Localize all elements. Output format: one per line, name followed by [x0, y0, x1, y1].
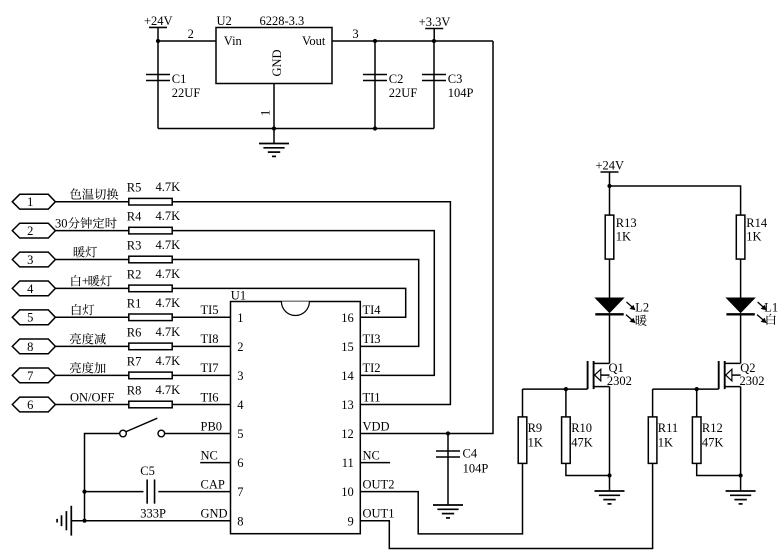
svg-text:1: 1: [237, 311, 243, 325]
LED L2: [596, 298, 624, 313]
wire port 8 to R6: [56, 345, 129, 347]
svg-text:22UF: 22UF: [172, 86, 201, 100]
svg-text:104P: 104P: [448, 86, 474, 100]
svg-text:30: 30: [55, 216, 68, 230]
svg-text:C5: C5: [140, 464, 155, 478]
svg-text:4.7K: 4.7K: [156, 325, 181, 339]
svg-text:+3.3V: +3.3V: [419, 15, 451, 29]
node R12 gate: [695, 387, 699, 391]
svg-text:8: 8: [237, 514, 243, 528]
svg-text:TI1: TI1: [363, 390, 381, 404]
port 2: [12, 223, 55, 238]
node C4 tap: [446, 431, 450, 435]
svg-text:4.7K: 4.7K: [156, 296, 181, 310]
svg-text:3: 3: [237, 369, 243, 383]
svg-text:8: 8: [27, 340, 33, 354]
svg-text:2: 2: [188, 27, 194, 41]
wire ground rail top-left: [158, 128, 434, 130]
svg-text:R6: R6: [127, 325, 142, 339]
ground left (rotated): [70, 506, 72, 536]
resistor R3: [129, 256, 172, 263]
node +24V rail: [607, 184, 611, 188]
pin 6 NC stub: [200, 462, 230, 464]
net label 亮度加: [70, 362, 81, 373]
svg-text:NC: NC: [363, 448, 380, 462]
wire C5 left: [85, 491, 144, 493]
svg-text:14: 14: [341, 369, 354, 383]
wire R3 to pin 14 riser: [172, 260, 419, 347]
net label 色温切换: [70, 188, 82, 199]
wire R8 to pin 4: [172, 404, 230, 406]
svg-text:C4: C4: [463, 447, 478, 461]
wire port 1 to R5: [56, 201, 129, 203]
resistor R5: [129, 198, 172, 205]
svg-text:1K: 1K: [746, 229, 761, 243]
svg-text:GND: GND: [201, 507, 228, 521]
svg-text:104P: 104P: [463, 462, 489, 476]
ground under Q2: [726, 490, 756, 492]
svg-text:4: 4: [27, 282, 34, 296]
svg-text:1: 1: [27, 195, 33, 209]
svg-text:1K: 1K: [528, 435, 543, 449]
svg-text:+24V: +24V: [596, 159, 625, 173]
svg-text:4: 4: [237, 398, 244, 412]
svg-text:6: 6: [237, 456, 243, 470]
svg-text:7: 7: [27, 369, 33, 383]
node R10 gate: [564, 387, 568, 391]
node input +24V: [156, 39, 160, 43]
node C3 top: [432, 39, 436, 43]
ground under Q1: [595, 490, 625, 492]
node C5 left: [82, 490, 86, 494]
ground under U2: [273, 129, 275, 144]
node C2 top: [373, 39, 377, 43]
svg-text:47K: 47K: [702, 435, 724, 449]
svg-text:L1: L1: [764, 301, 778, 315]
port 8: [12, 339, 55, 354]
power +24V: [149, 26, 167, 28]
resistor R6: [129, 343, 172, 350]
port 7: [12, 368, 55, 383]
svg-text:R10: R10: [571, 421, 592, 435]
svg-text:10: 10: [341, 485, 354, 499]
resistor R7: [129, 372, 172, 379]
svg-text:7: 7: [237, 485, 243, 499]
svg-text:4.7K: 4.7K: [156, 354, 181, 368]
svg-text:C3: C3: [448, 72, 463, 86]
svg-text:1K: 1K: [616, 229, 631, 243]
pin 11 NC stub: [360, 462, 390, 464]
svg-text:6228-3.3: 6228-3.3: [260, 14, 305, 28]
port 1: [12, 194, 55, 209]
svg-text:R9: R9: [528, 421, 543, 435]
svg-text:R14: R14: [746, 216, 768, 230]
resistor R9: [522, 389, 524, 417]
wire PB0 to switch: [165, 433, 231, 435]
svg-text:9: 9: [348, 514, 354, 528]
svg-text:TI6: TI6: [201, 390, 219, 404]
svg-text:1K: 1K: [658, 435, 673, 449]
wire OUT1 to R11: [360, 463, 652, 548]
resistor R10: [565, 389, 567, 417]
IC U1 body: [231, 302, 361, 534]
voltage regulator U2: [216, 28, 332, 84]
svg-text:2302: 2302: [607, 374, 632, 388]
svg-text:TI3: TI3: [363, 332, 381, 346]
svg-text:R2: R2: [127, 267, 142, 281]
svg-text:C1: C1: [172, 72, 187, 86]
wire R7 to pin 3: [172, 374, 230, 376]
wire port 3 to R3: [56, 259, 129, 261]
svg-text:4.7K: 4.7K: [156, 383, 181, 397]
wire R14 to LED L1: [740, 259, 742, 298]
svg-text:R7: R7: [127, 354, 142, 368]
capacitor C5: [146, 480, 148, 504]
wire R2 to pin 13 riser: [172, 288, 406, 317]
svg-text:R1: R1: [127, 296, 142, 310]
svg-text:Q2: Q2: [740, 361, 755, 375]
transistor Q2: [718, 361, 720, 389]
power +24V right: [601, 171, 619, 173]
svg-text:12: 12: [341, 427, 354, 441]
net label 亮度减: [70, 333, 81, 344]
wire C5 to CAP pin: [158, 491, 230, 493]
svg-text:CAP: CAP: [201, 477, 225, 491]
resistor R11: [652, 389, 654, 417]
svg-text:Q1: Q1: [609, 361, 624, 375]
node U2 gnd: [272, 126, 276, 130]
wire port 2 to R4: [56, 230, 129, 232]
port 4: [12, 281, 55, 296]
wire R5 to pin 16 riser: [172, 202, 450, 405]
net label 暖灯: [74, 246, 85, 257]
port 3: [12, 252, 55, 267]
svg-text:22UF: 22UF: [389, 86, 418, 100]
wire Q1 source to ground: [609, 387, 611, 491]
capacitor C4: [447, 434, 449, 506]
wire Vout to +3.3V net: [332, 40, 493, 42]
svg-text:TI7: TI7: [201, 361, 219, 375]
svg-text:11: 11: [342, 456, 354, 470]
svg-text:VDD: VDD: [363, 419, 390, 433]
wire Q1 gate: [523, 388, 588, 390]
wire port 4 to R2: [56, 287, 129, 289]
wire R1 to pin 1: [172, 316, 230, 318]
svg-text:333P: 333P: [140, 506, 166, 520]
svg-text:OUT1: OUT1: [363, 507, 395, 521]
wire U2 GND pin: [273, 84, 275, 129]
svg-text:R3: R3: [127, 239, 142, 253]
node Q2 source: [739, 473, 743, 477]
resistor R4: [129, 227, 172, 234]
switch S1: [158, 430, 165, 437]
node GND junction: [82, 519, 86, 523]
svg-text:4.7K: 4.7K: [156, 267, 181, 281]
svg-text:16: 16: [341, 311, 354, 325]
wire +3.3V to VDD: [360, 41, 493, 434]
svg-text:NC: NC: [201, 448, 218, 462]
wire R12 to source: [697, 463, 741, 475]
wire Q2 source to ground: [740, 387, 742, 491]
svg-text:2: 2: [27, 224, 33, 238]
capacitor C2: [374, 41, 376, 129]
svg-text:R8: R8: [127, 384, 142, 398]
wire rail to R13: [609, 186, 611, 215]
transistor Q1: [587, 361, 589, 389]
wire R13 to LED L2: [609, 259, 611, 298]
svg-text:Vout: Vout: [302, 34, 326, 48]
svg-text:Vin: Vin: [224, 34, 243, 48]
wire Q2 gate: [653, 388, 719, 390]
svg-text:4.7K: 4.7K: [156, 180, 181, 194]
ground under C4: [433, 504, 463, 506]
wire C1 branch: [157, 41, 159, 129]
capacitor C1: [146, 74, 170, 76]
wire OUT2 to R9: [360, 463, 522, 534]
svg-text:2302: 2302: [740, 374, 765, 388]
wire L1 to Q2 drain: [740, 316, 742, 364]
svg-text:3: 3: [352, 27, 358, 41]
svg-text:OUT2: OUT2: [363, 477, 395, 491]
node C2 bottom: [373, 126, 377, 130]
capacitor C3: [433, 41, 435, 129]
svg-text:R13: R13: [616, 216, 637, 230]
power +3.3V: [425, 28, 443, 30]
svg-text:1: 1: [259, 110, 273, 116]
svg-text:5: 5: [237, 427, 243, 441]
svg-text:4.7K: 4.7K: [156, 238, 181, 252]
svg-text:C2: C2: [389, 72, 404, 86]
svg-text:+24V: +24V: [144, 14, 173, 28]
resistor R12: [696, 389, 698, 417]
wire port 7 to R7: [56, 374, 129, 376]
svg-text:U1: U1: [231, 288, 246, 302]
svg-text:U2: U2: [217, 14, 232, 28]
resistor R2: [129, 285, 172, 292]
port 5: [12, 310, 55, 325]
svg-text:GND: GND: [270, 49, 284, 76]
svg-text:4.7K: 4.7K: [156, 209, 181, 223]
wire L2 to Q1 drain: [609, 316, 611, 364]
svg-text:5: 5: [27, 311, 33, 325]
svg-text:R12: R12: [702, 421, 723, 435]
svg-text:PB0: PB0: [201, 419, 223, 433]
svg-text:R11: R11: [658, 421, 678, 435]
wire R6 to pin 2: [172, 345, 230, 347]
wire +24V to Vin: [158, 40, 231, 42]
wire R10 to source: [566, 463, 610, 475]
svg-text:47K: 47K: [571, 435, 593, 449]
svg-text:R5: R5: [127, 181, 142, 195]
svg-text:+: +: [82, 274, 89, 288]
svg-text:6: 6: [27, 398, 33, 412]
svg-text:TI5: TI5: [201, 303, 219, 317]
resistor R13: [605, 215, 614, 259]
svg-text:R4: R4: [127, 210, 142, 224]
wire GND pin to ground: [71, 520, 230, 522]
svg-text:TI2: TI2: [363, 361, 381, 375]
LED L1: [727, 298, 755, 313]
wire R4 to pin 15 riser: [172, 231, 434, 376]
net label 白+暖灯: [71, 275, 80, 286]
svg-text:3: 3: [27, 253, 33, 267]
svg-text:TI4: TI4: [363, 303, 382, 317]
svg-text:15: 15: [341, 340, 354, 354]
wire port 5 to R1: [56, 316, 129, 318]
svg-text:2: 2: [237, 340, 243, 354]
wire port 6 to R8: [56, 404, 129, 406]
svg-text:ON/OFF: ON/OFF: [70, 390, 115, 404]
resistor R8: [129, 401, 172, 408]
wire switch to ground riser: [85, 434, 120, 521]
svg-text:TI8: TI8: [201, 332, 219, 346]
resistor R14: [736, 215, 745, 259]
svg-text:L2: L2: [635, 301, 649, 315]
svg-text:13: 13: [341, 398, 354, 412]
resistor R1: [129, 314, 172, 321]
node Q1 source: [607, 473, 611, 477]
wire +24V rail to R14: [610, 186, 741, 215]
port 6: [12, 397, 55, 412]
net label 白灯: [72, 304, 81, 315]
